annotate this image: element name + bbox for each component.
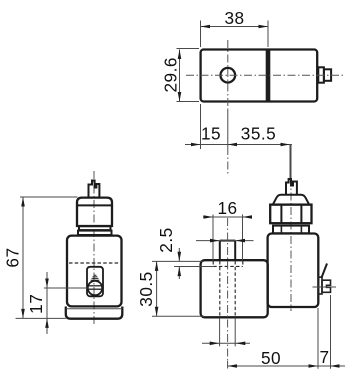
svg-text:35.5: 35.5 <box>241 124 276 144</box>
svg-text:15: 15 <box>201 124 221 144</box>
svg-text:16: 16 <box>217 198 237 218</box>
svg-text:17: 17 <box>26 294 46 314</box>
svg-text:7: 7 <box>319 347 329 367</box>
svg-text:29.6: 29.6 <box>161 57 181 92</box>
svg-text:38: 38 <box>224 8 244 28</box>
svg-text:50: 50 <box>261 348 281 368</box>
svg-text:30.5: 30.5 <box>136 271 156 306</box>
svg-text:2.5: 2.5 <box>156 227 176 252</box>
svg-text:67: 67 <box>3 247 23 267</box>
